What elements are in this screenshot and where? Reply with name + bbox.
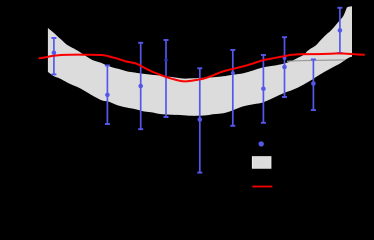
errorbar E5	[197, 68, 202, 172]
faint true-function line (visible inside band, right side)	[287, 60, 345, 61]
errorbar E6	[230, 50, 235, 126]
errorbar E4 dark nick marker	[164, 59, 167, 62]
red prediction line	[40, 53, 365, 81]
confidence band fill	[48, 6, 352, 116]
errorbar E10	[337, 8, 342, 53]
legend red line	[252, 186, 272, 188]
legend band patch	[252, 157, 271, 169]
errorbar E8	[282, 37, 287, 97]
errorbar E3	[138, 43, 143, 129]
errorbar E8 small bulge marker	[283, 56, 287, 60]
legend marker dot	[259, 141, 264, 146]
errorbar E7	[261, 55, 266, 123]
errorbar E6 small marker	[231, 71, 235, 75]
errorbar E9	[311, 59, 316, 110]
errorbar E4	[164, 40, 169, 117]
errorbar E2	[105, 66, 110, 125]
errorbar E1	[51, 38, 56, 74]
